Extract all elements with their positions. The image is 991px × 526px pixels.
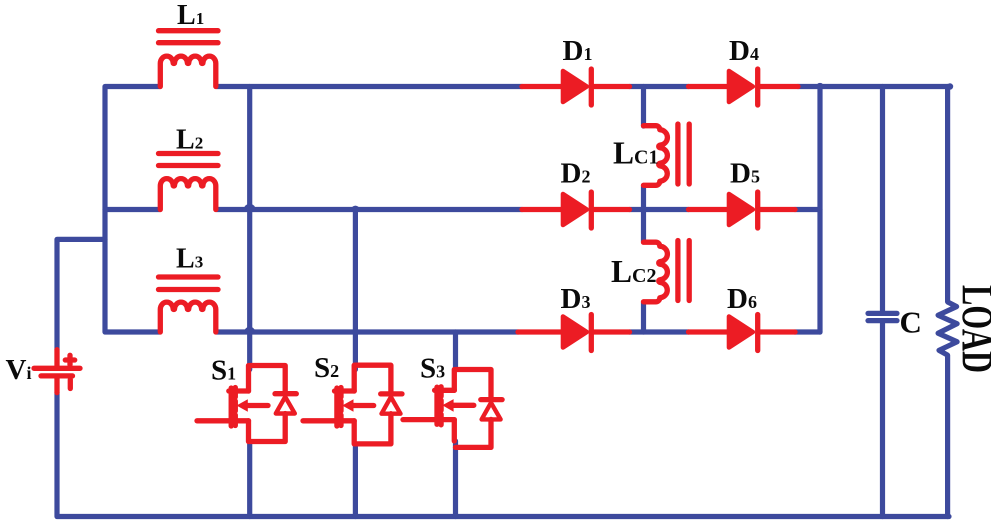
svg-text:LOAD: LOAD: [953, 285, 991, 373]
diode D1: [522, 69, 630, 105]
wire: left input bus (row1 corner, down to row3 corner): [105, 87, 160, 333]
diode D6: [689, 315, 796, 351]
wire: row2 between D2 and D5: [630, 207, 689, 212]
svg-text:D1: D1: [563, 35, 593, 67]
wire: LC1 bottom to LC2 top through row2: [641, 186, 646, 243]
transistor S3 (MOSFET with body diode): [403, 370, 502, 448]
wire: row3 from D6 cathode to output bus: [795, 329, 820, 334]
wire: LC1 top branch from row1: [641, 87, 646, 127]
svg-text:C: C: [900, 305, 922, 340]
svg-text:S2: S2: [314, 352, 339, 384]
node: top bus right end: [947, 83, 953, 89]
svg-text:D3: D3: [561, 283, 591, 315]
wire: S1 source to bottom bus: [247, 444, 252, 517]
wire: row1 from D1 cathode region to D4, and to right top bus: [630, 84, 689, 89]
diode D4: [689, 69, 799, 105]
svg-text:D6: D6: [727, 283, 757, 315]
svg-text:L2: L2: [176, 124, 203, 155]
inductor L1: [159, 31, 219, 87]
wire: row2 from L2 to D2 anode lead: [217, 207, 523, 212]
wire: capacitor branch top: [880, 87, 885, 312]
node: junction S1/row2: [244, 204, 256, 210]
svg-text:L1: L1: [177, 0, 204, 31]
node: junction S1/row3: [244, 327, 255, 333]
resistor LOAD (zigzag) and its branch: [938, 87, 957, 517]
node: junction S2/row2: [351, 206, 360, 210]
svg-text:D2: D2: [561, 157, 591, 189]
svg-text:L3: L3: [176, 244, 203, 275]
diode D5: [689, 192, 796, 228]
wire: S1 drain bus from row1 down: [247, 87, 252, 370]
wire: S2 drain bus from row2 down: [353, 210, 358, 370]
wire: LC2 bottom branch to row3: [641, 302, 646, 332]
wire: battery bottom column and bottom bus: [57, 393, 949, 517]
svg-text:D4: D4: [729, 35, 759, 67]
svg-text:S1: S1: [211, 355, 236, 387]
inductor L2: [159, 154, 219, 210]
diode D3: [518, 315, 630, 351]
wire: S3 source to bottom bus: [453, 441, 458, 517]
wire: row2 from D5 cathode to output bus: [795, 207, 820, 212]
capacitor C plates: [868, 311, 897, 316]
transistor S2 (MOSFET with body diode): [303, 365, 402, 444]
wire: row3 from L3 to D3 anode lead: [217, 329, 519, 334]
coupled inductor LC1: [644, 124, 690, 185]
inductor L3: [159, 277, 219, 332]
diode D2: [522, 192, 630, 228]
wire: row1 from L1 to D1 anode lead: [217, 84, 523, 89]
wire: row1 top bus right of D4 to load corner: [798, 84, 950, 89]
coupled inductor LC2: [644, 241, 690, 302]
svg-text:S3: S3: [420, 353, 445, 385]
svg-text:D5: D5: [730, 157, 760, 189]
wire: diode output bus vertical: [817, 87, 822, 333]
wire: row2 left stub from bus to L2: [105, 207, 160, 212]
wire: battery jog from left bus to battery column: [57, 239, 105, 349]
svg-text:Vi: Vi: [6, 354, 32, 386]
wire: S2 source to bottom bus: [353, 446, 358, 517]
wire: row3 between D3 and D6: [630, 329, 689, 334]
svg-text:LC1: LC1: [613, 136, 658, 171]
node: junction output bus/row1: [816, 83, 824, 87]
svg-text:LC2: LC2: [611, 254, 656, 289]
wire: capacitor branch bottom: [880, 323, 885, 517]
wire: S3 drain bus from row3 down: [453, 332, 458, 368]
battery Vi: [34, 350, 80, 393]
transistor S1 (MOSFET with body diode): [197, 366, 296, 442]
